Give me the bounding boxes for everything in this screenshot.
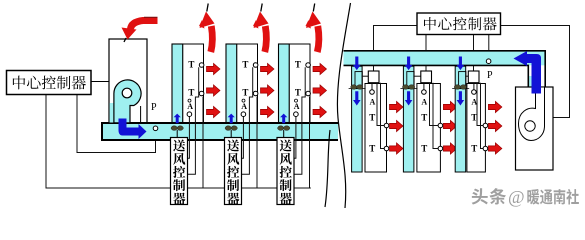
svg-text:A: A bbox=[294, 102, 300, 111]
supply air controller box 2 bbox=[225, 138, 242, 205]
label 中心控制器 right bbox=[424, 17, 436, 30]
wire: central controller to P sensor bbox=[77, 95, 156, 153]
right branch 2 riser duct bbox=[403, 66, 414, 172]
A sensor circle bbox=[187, 112, 192, 117]
sensor wires right 1 bbox=[377, 83, 385, 126]
label 送风控制器 bbox=[280, 140, 292, 152]
neck cyan tab bbox=[529, 76, 532, 87]
right branch 3 riser duct bbox=[455, 66, 466, 172]
wall circles right 3 bbox=[483, 123, 488, 128]
sensor wires branch 3 bbox=[294, 117, 296, 159]
A sensor circle + labels right 3 bbox=[472, 90, 477, 95]
P node right bbox=[486, 59, 491, 64]
svg-text:T: T bbox=[295, 88, 301, 98]
svg-text:T: T bbox=[369, 144, 375, 154]
A sensor circle + labels right 1 bbox=[370, 90, 375, 95]
wire: right controller to AHU bbox=[501, 26, 570, 118]
VAV box frame right branch 1 bbox=[355, 72, 362, 89]
label 送风控制器 bbox=[173, 140, 185, 152]
branch 1 riser duct bbox=[172, 44, 183, 123]
blue arrow up into riser 3 bbox=[280, 114, 287, 124]
wire: central controller bottom bus to supply controllers bbox=[46, 95, 311, 189]
red supply arrows right room 2 bbox=[443, 101, 457, 112]
VAV box frame right branch 2 bbox=[407, 72, 414, 89]
damper shaft line right branch 2 bbox=[400, 87, 417, 89]
svg-text:T: T bbox=[188, 88, 194, 98]
damper actuator circles on room wall bbox=[199, 63, 204, 68]
svg-text:T: T bbox=[471, 113, 477, 123]
A sensor circle bbox=[241, 112, 246, 117]
svg-text:T: T bbox=[421, 144, 427, 154]
wire: controller to AHU bbox=[91, 81, 109, 83]
red supply arrows right room 1 bbox=[390, 101, 404, 112]
right branch 1 riser duct bbox=[352, 66, 363, 172]
sensor wires right 2 bbox=[430, 83, 439, 126]
svg-text:T: T bbox=[242, 88, 248, 98]
big red exhaust arrow branch 1 bbox=[211, 26, 213, 52]
blue down arrow below damper bbox=[353, 91, 361, 105]
wall circles right 2 bbox=[438, 123, 443, 128]
blue return airflow arrow right bbox=[527, 51, 532, 55]
actuator box right 1 bbox=[362, 75, 369, 77]
return arrow dark edge bbox=[144, 16, 158, 18]
branch 2 room box bbox=[237, 44, 258, 123]
A sensor circle bbox=[294, 112, 299, 117]
watermark 头条 @ 暖通南社 bbox=[473, 189, 489, 205]
red return-air arrow into AHU bbox=[131, 21, 158, 30]
actuator box right 3 bbox=[465, 75, 468, 77]
central controller box right bbox=[417, 13, 501, 35]
red supply arrows room 3 bbox=[313, 63, 327, 74]
blue arrow up into riser 1 bbox=[174, 114, 181, 124]
damper actuator circles on room wall bbox=[306, 63, 311, 68]
svg-text:P: P bbox=[487, 70, 493, 81]
svg-text:@: @ bbox=[508, 187, 525, 207]
big red exhaust arrow branch 2 bbox=[265, 26, 267, 52]
red supply arrows room 2 bbox=[261, 63, 275, 74]
svg-text:A: A bbox=[241, 102, 247, 111]
svg-text:T: T bbox=[369, 113, 375, 123]
svg-text:T: T bbox=[188, 60, 194, 70]
wall circles right 1 bbox=[384, 123, 389, 128]
break lines between diagrams bbox=[337, 3, 350, 208]
right branch 1 room box bbox=[365, 84, 387, 173]
branch 1 room box bbox=[183, 44, 204, 123]
svg-text:T: T bbox=[471, 144, 477, 154]
VAV box frame right branch 3 bbox=[459, 72, 466, 89]
wire: right controller to P node bbox=[488, 35, 490, 61]
AHU box left bbox=[109, 39, 147, 124]
central controller box left bbox=[7, 71, 92, 95]
actuator box right 2 bbox=[413, 75, 421, 77]
AHU box right bbox=[516, 87, 554, 170]
label 中心控制器 bbox=[13, 76, 25, 90]
svg-text:A: A bbox=[187, 102, 193, 111]
sensor wires branch 2 bbox=[242, 117, 244, 159]
fan F2 scroll volute bbox=[519, 88, 545, 141]
blue arrow up into riser 2 bbox=[228, 114, 235, 124]
wire: right controller to branch 3 actuator bbox=[473, 35, 475, 72]
wire: right controller to branch 1 actuator bbox=[374, 26, 418, 72]
branch 2 riser duct bbox=[226, 44, 237, 123]
main duct right bbox=[344, 51, 546, 66]
blue supply airflow arrow in duct bbox=[119, 119, 147, 140]
blue down arrow top riser bbox=[405, 57, 413, 71]
blue down arrow below damper bbox=[405, 91, 413, 105]
svg-text:A: A bbox=[471, 97, 477, 106]
P sensor node on duct bbox=[153, 126, 158, 131]
damper actuator circles on room wall bbox=[253, 63, 258, 68]
fan F1 discharge wall bbox=[140, 106, 142, 123]
damper D1 bbox=[171, 126, 183, 131]
svg-text:T: T bbox=[295, 60, 301, 70]
damper shaft line right branch 1 bbox=[349, 87, 366, 89]
right branch 3 room box bbox=[467, 84, 486, 173]
svg-text:P: P bbox=[151, 102, 157, 113]
supply air controller box 3 bbox=[277, 138, 294, 205]
blue down arrow below damper bbox=[457, 91, 465, 105]
red supply arrows room 1 bbox=[207, 63, 221, 74]
fan F1 outlet plenum bbox=[110, 103, 115, 123]
big red exhaust arrow branch 3 bbox=[317, 26, 319, 52]
svg-text:A: A bbox=[370, 97, 376, 106]
svg-text:T: T bbox=[242, 60, 248, 70]
damper D2 bbox=[225, 126, 237, 131]
blue down arrow top riser bbox=[353, 57, 361, 71]
right branch 2 room box bbox=[417, 84, 441, 173]
svg-text:T: T bbox=[421, 113, 427, 123]
supply air controller box 1 bbox=[171, 138, 188, 205]
duct: main supply duct left bbox=[102, 123, 338, 140]
fan F1 bbox=[114, 80, 141, 123]
A sensor circle + labels right 2 bbox=[422, 90, 427, 95]
damper shaft line right branch 3 bbox=[452, 87, 469, 89]
red supply arrows right room 3 bbox=[488, 101, 502, 112]
branch 3 room box bbox=[289, 44, 310, 123]
label 送风控制器 bbox=[227, 140, 239, 152]
damper D3 bbox=[278, 126, 290, 131]
wire: right controller to branch 2 actuator bbox=[425, 35, 427, 72]
AHU inlet neck right bbox=[528, 65, 545, 87]
blue down arrow top riser bbox=[457, 57, 465, 71]
sensor wires branch 1 bbox=[188, 117, 190, 159]
svg-text:A: A bbox=[421, 97, 427, 106]
sensor wires right 3 bbox=[477, 83, 484, 126]
branch 3 riser duct bbox=[279, 44, 290, 123]
